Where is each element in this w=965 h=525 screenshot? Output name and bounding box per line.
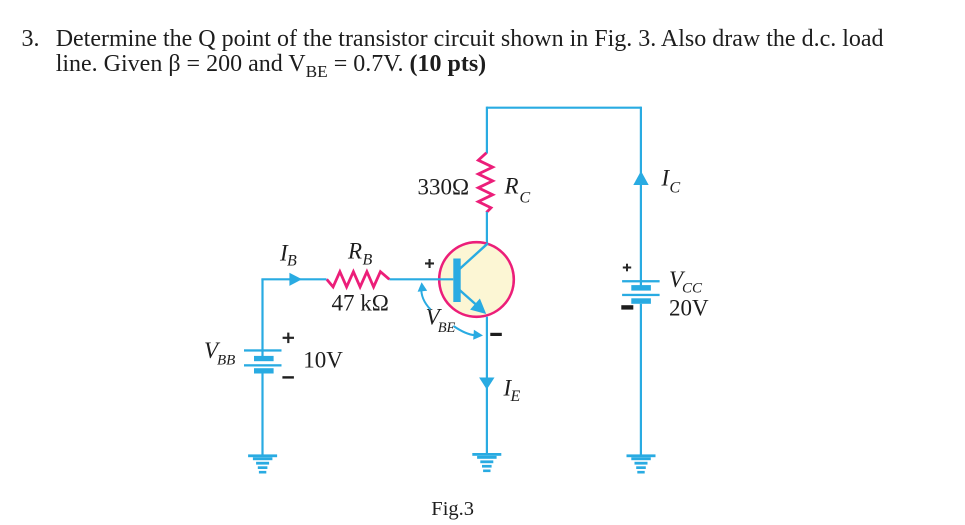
wire collector top drop [486, 107, 488, 154]
label plus VCC [623, 264, 631, 272]
wire right vertical upper [640, 107, 642, 287]
label minus emitter [490, 333, 502, 336]
svg-text:47 kΩ: 47 kΩ [332, 291, 389, 316]
svg-text:20V: 20V [669, 295, 709, 320]
svg-text:B: B [287, 253, 297, 270]
transistor collector line [459, 243, 488, 269]
arrow IB [289, 273, 302, 286]
ground (right) [627, 454, 656, 473]
arrow IC [633, 171, 648, 185]
label minus VBB [282, 376, 294, 378]
resistor RC [478, 153, 492, 213]
wire base [389, 278, 453, 280]
transistor emitter arrowhead [470, 299, 486, 315]
label plus base [425, 259, 434, 268]
VBE curved arrow right [454, 326, 476, 335]
svg-text:BE: BE [438, 320, 456, 336]
wire emitter vertical [486, 317, 488, 454]
svg-text:R: R [504, 173, 519, 198]
wire left vertical lower [261, 374, 263, 455]
svg-text:E: E [510, 388, 521, 405]
ground (left) [248, 454, 277, 473]
svg-text:330Ω: 330Ω [418, 175, 470, 200]
wire VBB top to RB [261, 278, 326, 280]
svg-text:R: R [347, 238, 362, 263]
wire right vertical lower [640, 304, 642, 455]
svg-text:BB: BB [217, 353, 235, 369]
svg-text:10V: 10V [303, 348, 343, 373]
svg-text:C: C [520, 190, 531, 207]
battery VCC [622, 280, 660, 304]
wire RC to transistor [486, 212, 488, 245]
transistor emitter line [459, 290, 480, 309]
battery VBB [244, 349, 282, 373]
VBE curved arrow up [421, 288, 430, 310]
transistor Q1 circle [439, 242, 514, 317]
svg-text:Fig.3: Fig.3 [431, 498, 474, 520]
transistor base bar [453, 259, 460, 303]
svg-text:C: C [670, 179, 681, 196]
arrow IE [479, 378, 494, 390]
ground (middle) [472, 453, 501, 472]
label minus VCC [621, 305, 633, 309]
wire top horizontal [487, 107, 641, 109]
svg-text:CC: CC [682, 281, 703, 297]
label plus VBB [283, 333, 294, 344]
wire left vertical upper [261, 279, 263, 357]
svg-text:B: B [363, 251, 373, 268]
resistor RB [327, 272, 390, 287]
